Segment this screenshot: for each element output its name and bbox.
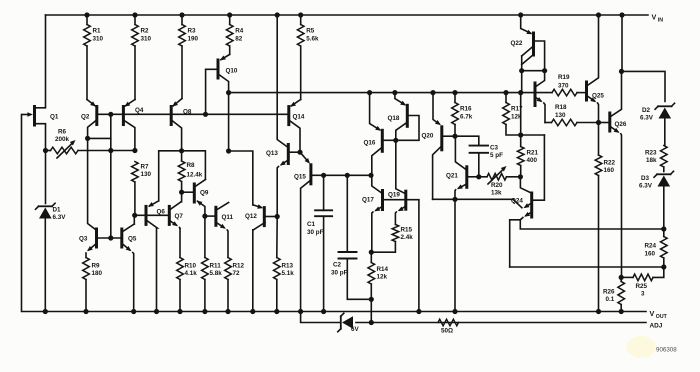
svg-text:180: 180 [92,270,103,277]
node VIN label [652,13,664,24]
svg-text:V: V [652,13,657,22]
svg-text:3: 3 [641,291,645,298]
svg-text:R2: R2 [141,28,150,35]
transistor Q6 [135,201,166,312]
svg-text:18k: 18k [646,157,657,164]
resistor R5 [297,15,319,100]
transistor Q5 [122,215,137,311]
svg-text:13k: 13k [491,189,502,196]
resistor R8 [178,151,202,195]
svg-text:310: 310 [141,36,152,43]
transistor Q20 [422,93,456,200]
svg-text:Q11: Q11 [222,214,234,221]
resistor R17 [503,93,545,135]
transistor Q15 [294,152,324,311]
svg-text:R7: R7 [141,164,150,171]
svg-text:130: 130 [141,171,152,178]
svg-text:200k: 200k [55,136,70,143]
transistor Q24 [510,135,664,267]
svg-text:906308: 906308 [656,347,677,354]
svg-text:6V: 6V [351,326,360,333]
resistor R16 [452,93,473,139]
svg-text:400: 400 [527,157,538,164]
wire VOUT rail and Q1 gate return [22,115,647,315]
svg-text:R3: R3 [188,28,197,35]
svg-text:R16: R16 [460,106,472,113]
resistor R4 [226,15,243,54]
svg-text:R20: R20 [491,182,503,189]
svg-text:160: 160 [604,167,615,174]
svg-text:72: 72 [233,270,241,277]
transistor Q8 [171,99,192,151]
transistor Q9 [182,180,209,219]
transistor Q1 [22,15,59,151]
svg-text:Q20: Q20 [422,133,434,140]
svg-text:R14: R14 [377,266,389,273]
transistor Q4 [123,100,143,151]
svg-text:5.6k: 5.6k [306,36,319,43]
svg-text:Q22: Q22 [511,40,523,47]
svg-text:4.1k: 4.1k [185,270,198,277]
svg-text:Q12: Q12 [245,213,257,220]
svg-text:30 pF: 30 pF [307,229,324,236]
transistor Q14 [289,100,305,155]
svg-text:Q19: Q19 [388,191,400,198]
svg-text:R13: R13 [282,263,294,270]
svg-text:C1: C1 [307,221,316,228]
svg-text:Q10: Q10 [226,68,238,75]
svg-text:C2: C2 [333,262,342,269]
transistor Q2 [81,100,97,139]
svg-text:R25: R25 [636,283,648,290]
resistor R10 [177,258,198,312]
svg-text:6.3V: 6.3V [53,214,67,221]
resistor R19 [552,74,577,96]
svg-text:Q8: Q8 [183,109,192,116]
svg-text:Q1: Q1 [50,113,59,120]
svg-text:R5: R5 [306,28,315,35]
svg-text:370: 370 [558,83,569,90]
svg-text:D3: D3 [641,175,650,182]
svg-text:6.3V: 6.3V [640,115,654,122]
svg-text:0.1: 0.1 [606,296,615,303]
svg-text:ADJ: ADJ [650,322,663,329]
svg-text:Q21: Q21 [446,173,458,180]
svg-text:R9: R9 [92,263,101,270]
transistor Q22 [511,15,548,93]
svg-text:R11: R11 [210,263,222,270]
wire Q22 collector column [520,93,522,135]
zener 6V [338,313,360,333]
svg-text:Q13: Q13 [266,150,278,157]
svg-text:130: 130 [555,112,566,119]
resistor 50ohm [438,319,459,334]
svg-text:Q5: Q5 [128,236,137,243]
resistor R2 [132,15,152,100]
wire Q15 base node [321,173,374,178]
resistor R25 [619,267,664,298]
svg-text:D1: D1 [53,207,62,214]
zener D2 [640,103,675,145]
svg-text:R23: R23 [645,150,657,157]
svg-text:Q2: Q2 [81,113,90,120]
resistor R6 [51,129,79,159]
wire ADJ line [301,312,646,326]
resistor R22 [595,123,615,312]
svg-text:Q9: Q9 [200,190,209,197]
wire Q10 collector node [226,148,253,204]
svg-text:R24: R24 [645,243,657,250]
wire bias rail [226,90,586,95]
transistor Q3 [79,138,121,257]
svg-text:Q15: Q15 [294,174,306,181]
svg-text:R22: R22 [604,160,616,167]
transistor Q19 [388,191,419,311]
svg-text:12.4k: 12.4k [187,172,203,179]
transistor Q23 [535,71,545,123]
transistor Q26 [599,71,627,277]
svg-text:OUT: OUT [656,314,668,320]
svg-text:Q24: Q24 [511,198,523,205]
svg-text:50Ω: 50Ω [441,328,453,335]
resistor R13 [274,217,295,312]
wire Q8 collector node [159,148,206,201]
svg-text:R15: R15 [401,227,413,234]
svg-text:Q6: Q6 [157,209,166,216]
svg-text:R26: R26 [603,289,615,296]
node ADJ label [650,322,663,329]
transistor Q13 [266,15,300,217]
zener D1 [36,151,67,312]
resistor R14 [368,252,389,322]
capacitor C3 [455,136,503,179]
svg-text:R12: R12 [233,263,245,270]
svg-text:Q3: Q3 [79,236,88,243]
wire VIN rail [46,12,649,17]
wire Q20 collector to Q24 [433,197,522,208]
svg-text:5.1k: 5.1k [282,270,295,277]
transistor Q21 [446,136,479,311]
capacitor C2 [331,175,374,302]
svg-text:82: 82 [235,36,243,43]
resistor R24 [645,229,668,270]
transistor Q18 [388,93,420,194]
svg-text:160: 160 [645,251,656,258]
resistor R3 [179,15,199,99]
svg-text:310: 310 [93,36,104,43]
transistor Q17 [362,175,405,252]
svg-text:190: 190 [188,36,199,43]
svg-text:12k: 12k [377,274,388,281]
svg-text:R19: R19 [558,74,570,81]
svg-text:R4: R4 [235,28,244,35]
svg-text:C3: C3 [490,145,499,152]
svg-text:IN: IN [658,17,663,23]
svg-text:6.7k: 6.7k [460,114,473,121]
resistor R7 [132,162,152,218]
svg-text:5 pF: 5 pF [490,152,503,159]
resistor R26 [603,277,625,311]
svg-text:Q26: Q26 [615,121,627,128]
svg-text:5.8k: 5.8k [210,270,223,277]
svg-text:R21: R21 [527,150,539,157]
capacitor C1 [307,175,332,311]
transistor Q25 [587,15,605,123]
svg-text:R18: R18 [555,104,567,111]
resistor R18 [545,104,601,126]
svg-text:Q14: Q14 [293,114,305,121]
svg-text:Q17: Q17 [362,197,374,204]
svg-text:R8: R8 [187,162,196,169]
resistor R23 [645,146,667,172]
svg-text:R6: R6 [58,129,67,136]
resistor R20 [479,166,523,196]
wire Q24 emitter line [510,266,664,268]
transistor Q16 [364,93,396,176]
resistor R11 [202,216,223,311]
svg-text:Q18: Q18 [388,115,400,122]
svg-text:R10: R10 [185,263,197,270]
resistor R21 [517,132,538,176]
svg-text:D2: D2 [642,107,651,114]
svg-text:Q7: Q7 [175,213,184,220]
svg-text:Q16: Q16 [364,139,376,146]
wire Q2 collector to base rail [85,114,113,240]
transistor Q12 [245,204,280,311]
svg-text:R1: R1 [93,28,102,35]
resistor R9 [83,258,103,312]
resistor R12 [225,258,245,312]
svg-text:2.4k: 2.4k [401,234,414,241]
transistor Q11 [205,203,234,258]
svg-text:V: V [650,309,655,318]
node drawing number 906308 [626,336,677,358]
transistor Q10 [206,54,238,151]
svg-text:Q25: Q25 [592,93,604,100]
transistor Q7 [147,192,184,257]
resistor R15 [369,225,414,255]
wire D2 branch [619,15,665,102]
node VOUT label [650,309,668,320]
wire PNP base rail [98,112,289,117]
zener D3 [639,171,674,231]
resistor R1 [84,15,104,100]
wire Q1 source node [43,148,138,153]
svg-text:6.3V: 6.3V [639,183,653,190]
svg-text:Q4: Q4 [135,107,144,114]
svg-text:30 pF: 30 pF [331,270,348,277]
